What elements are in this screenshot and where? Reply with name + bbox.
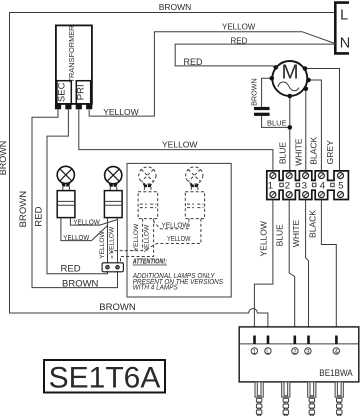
BE1BWA terminal circle 3 [305, 348, 311, 354]
terminal block X1 outline [267, 171, 349, 200]
svg-text:YELLOW: YELLOW [133, 223, 140, 251]
svg-text:ATTENTION!:: ATTENTION!: [132, 257, 167, 266]
transformer PRI winding box [76, 81, 90, 104]
wire lamp L2 left down to connector [107, 218, 109, 263]
transformer SEC winding box [57, 81, 71, 104]
capacitor C1 plate 2 [254, 113, 270, 116]
BE1BWA terminal circle L [265, 348, 271, 354]
svg-text:1: 1 [268, 180, 273, 191]
svg-text:BLUE: BLUE [267, 118, 287, 127]
mains plug terminal bracket L/N [335, 3, 349, 54]
svg-text:BROWN: BROWN [250, 78, 259, 106]
BE1BWA pin 3 [307, 336, 310, 344]
svg-text:M: M [282, 60, 299, 83]
SE1T6A label box [44, 360, 165, 393]
svg-text:WHITE: WHITE [293, 138, 303, 166]
BE1BWA pin 4 [335, 336, 338, 344]
svg-text:YELLOW: YELLOW [108, 226, 115, 254]
dashed wire L4 left to L3 right [154, 219, 189, 229]
lamp L3 socket dashed [138, 192, 158, 219]
BE1BWA pin 2 [294, 336, 297, 344]
wire yellow transformer PRI to N [89, 32, 335, 116]
wire red SEC to lamp connector [47, 109, 108, 273]
svg-text:YELLOW: YELLOW [63, 235, 89, 242]
motor terminal dot bottom [288, 94, 293, 99]
svg-text:PRI: PRI [76, 84, 87, 100]
svg-text:SEC: SEC [56, 82, 67, 102]
lamp L2 neck [109, 187, 111, 191]
lamp L3 neck dashed [143, 187, 145, 192]
svg-text:YELLOW: YELLOW [222, 23, 256, 32]
svg-text:RED: RED [184, 57, 204, 67]
wire capacitor to blue junction [262, 116, 290, 128]
dashed wire L3 left to connector [112, 219, 143, 259]
lamp L1 neck [62, 186, 64, 190]
BE1BWA faston connector 1 [255, 382, 263, 416]
svg-text:RED: RED [61, 263, 81, 274]
svg-text:SE1T6A: SE1T6A [49, 361, 161, 394]
lamp L3 bulb dashed [139, 167, 156, 184]
transformer pin 1 [55, 104, 61, 109]
svg-text:RED: RED [34, 206, 45, 226]
svg-text:BROWN: BROWN [159, 2, 192, 12]
svg-text:RED: RED [231, 36, 248, 45]
svg-text:WHITE: WHITE [291, 219, 301, 247]
wire yellow terminal 1 to BE1BWA 1 [254, 200, 273, 327]
svg-text:YELLOW: YELLOW [162, 140, 197, 150]
wire yellow lamp L1 left to L2 left [61, 218, 108, 241]
wire blue terminal 2 to BE1BWA 2 [289, 200, 295, 327]
wire black motor to terminal 4 [309, 80, 322, 171]
transformer pin 2 [65, 104, 71, 109]
terminal 1 screws [270, 173, 276, 179]
svg-text:YELLOW: YELLOW [167, 236, 191, 243]
svg-text:5: 5 [338, 180, 343, 191]
lamp L2 socket [104, 191, 122, 218]
BE1BWA control unit box [239, 327, 359, 382]
motor terminal dot right-upper [306, 78, 311, 83]
svg-text:YELLOW: YELLOW [99, 230, 106, 258]
svg-text:BLUE: BLUE [277, 142, 287, 165]
svg-text:4: 4 [320, 180, 325, 191]
svg-text:YELLOW: YELLOW [162, 222, 189, 229]
transformer pin 3 [76, 104, 82, 109]
svg-text:TRANSFORMER: TRANSFORMER [67, 25, 76, 82]
BE1BWA terminal circle 4 [333, 348, 339, 354]
svg-text:WITH 4 LAMPS: WITH 4 LAMPS [133, 282, 178, 291]
motor terminal dot top-left [274, 65, 279, 70]
wire brown mains loop (L to BE1BWA L) with hop over yellow [10, 13, 336, 327]
svg-text:2: 2 [285, 180, 290, 191]
BE1BWA faston connector 4 [335, 382, 343, 416]
BE1BWA pin 1 [253, 336, 256, 344]
BE1BWA terminal circle 2 [292, 348, 298, 354]
svg-text:YELLOW: YELLOW [103, 107, 138, 117]
svg-text:YELLOW: YELLOW [259, 221, 269, 256]
dashed wire L4 right to L3 left [145, 219, 201, 250]
transformer pin 4 [86, 104, 92, 109]
terminal 4 screws [318, 173, 324, 179]
lamp L4 neck dashed [190, 187, 192, 192]
svg-text:BROWN: BROWN [99, 302, 136, 313]
wire yellow lamp L1 right to L2 right [70, 218, 117, 226]
svg-text:YELLOW: YELLOW [144, 224, 151, 252]
wire lamp L2 right down to connector [117, 218, 119, 263]
lamp L1 socket [57, 191, 75, 218]
wire red N to motor [175, 44, 335, 67]
BE1BWA faston connector 2 [282, 382, 290, 416]
wire white motor to terminal 3 [305, 89, 307, 171]
svg-text:BROWN: BROWN [62, 278, 99, 289]
lamp L4 bulb dashed [186, 167, 203, 184]
wire white terminal 3 to BE1BWA 3 [306, 200, 309, 327]
BE1BWA terminal circle 1 [251, 348, 257, 354]
terminal 2 screws [286, 173, 292, 179]
svg-text:BE1BWA: BE1BWA [319, 368, 353, 379]
terminal block holes [280, 183, 284, 187]
lamp L1 bulb [57, 166, 74, 183]
motor terminal dot top-right [303, 66, 308, 71]
terminal 5 screws [338, 173, 344, 179]
svg-text:BLACK: BLACK [307, 210, 317, 238]
svg-text:BROWN: BROWN [0, 141, 8, 176]
motor terminal dot left [270, 76, 275, 81]
BE1BWA pin L [267, 336, 270, 344]
wire motor to capacitor [262, 78, 272, 107]
svg-text:BLACK: BLACK [309, 137, 319, 165]
lamp supply connector block [102, 263, 123, 272]
wire yellow PRI to terminal block 1 [79, 109, 273, 171]
terminal 3 screws [303, 173, 309, 179]
wire blue motor to terminal 2 [289, 96, 291, 171]
dashed wire L3 right to connector [121, 219, 154, 262]
svg-text:N: N [340, 36, 350, 52]
svg-text:GREY: GREY [325, 140, 335, 164]
junction dot blue [288, 125, 293, 130]
lamp L2 bulb [105, 167, 122, 184]
lamp L2 base contacts [109, 184, 113, 187]
svg-text:BROWN: BROWN [18, 191, 29, 228]
svg-text:L: L [340, 7, 348, 23]
wire grey motor to terminal 5 [305, 69, 340, 172]
motor terminal dot right-lower [304, 87, 309, 92]
svg-text:YELLOW: YELLOW [73, 219, 100, 226]
BE1BWA faston connector 3 [308, 382, 316, 416]
lamp L4 socket dashed [185, 192, 204, 219]
svg-text:3: 3 [302, 180, 307, 191]
lamp L1 base contacts [61, 183, 65, 186]
wire brown SEC to lamp connector [32, 109, 118, 287]
attention box [127, 163, 231, 297]
svg-text:BLUE: BLUE [274, 224, 284, 247]
lamp L3 base contacts [143, 184, 147, 187]
motor M1 body [272, 61, 307, 96]
motor sine symbol [278, 82, 299, 91]
lamp L4 base contacts [190, 184, 194, 187]
transformer T1 body [56, 25, 92, 104]
capacitor C1 plate 1 [254, 107, 270, 110]
wire black terminal 4 to BE1BWA 4 [321, 200, 336, 327]
